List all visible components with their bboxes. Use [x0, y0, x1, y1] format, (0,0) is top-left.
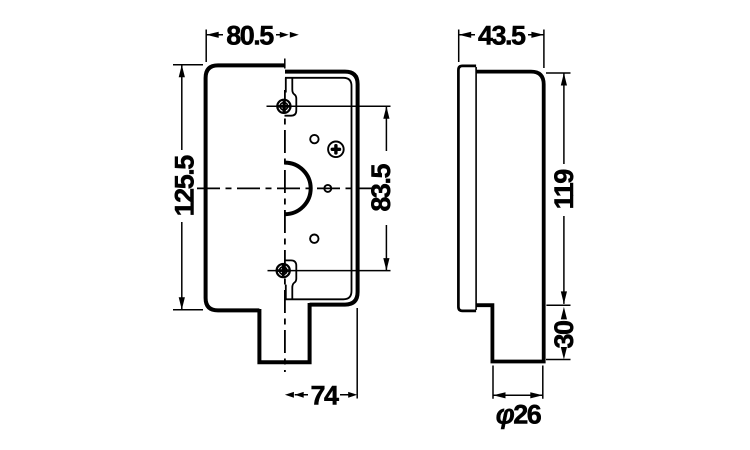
dimension 43.5: dimension line and arrows	[459, 32, 544, 38]
dimension phi26: extension lines	[493, 366, 543, 399]
svg-text:30: 30	[549, 321, 579, 349]
dimension 125.5: dimension line and arrows	[179, 65, 185, 310]
front view: hole center	[324, 185, 331, 192]
dimension 80.5: centerline tick	[284, 59, 286, 69]
front view: bottom mounting screw	[277, 264, 290, 277]
front view: horizontal centerline	[197, 187, 372, 189]
dimension 80.5: extension line left	[205, 30, 207, 63]
dimension 74: extension line right	[356, 308, 358, 399]
svg-text:125.5: 125.5	[169, 155, 199, 217]
dimension phi26: dimension line and arrows	[493, 392, 543, 398]
side view: cover plate right edge	[475, 67, 477, 310]
front view: cover outline	[206, 65, 285, 310]
dimension 83.5: dimension line and arrows	[383, 106, 389, 270]
dimension 74: dimension line and arrows	[285, 392, 357, 398]
front view: hole lower	[310, 235, 318, 243]
dimension 119: dimension line and arrows	[561, 73, 567, 304]
front view: bottom screw boss and slot	[285, 260, 297, 299]
front view: inner opening	[285, 78, 352, 299]
dimension 80.5: dimension line and arrows	[206, 32, 299, 38]
front view: hole upper	[310, 135, 318, 143]
svg-text:43.5: 43.5	[478, 21, 526, 51]
dimension 125.5: extension lines	[173, 65, 203, 310]
dimension 43.5: extension lines	[459, 30, 544, 69]
front view: machine screw on plate	[328, 142, 344, 158]
svg-text:119: 119	[549, 169, 579, 210]
front view: top mounting screw	[277, 100, 290, 113]
svg-text:80.5: 80.5	[226, 21, 274, 51]
front view: knockout semicircle	[285, 163, 311, 215]
svg-text:83.5: 83.5	[366, 164, 396, 212]
dimension 30: extension line bottom	[546, 359, 571, 361]
front view: body outline	[285, 72, 358, 305]
svg-text:74: 74	[310, 381, 339, 411]
dimension 30: arrows	[561, 307, 567, 360]
dimension 83.5: leader lines	[267, 106, 391, 270]
front view: conduit stub	[259, 303, 309, 362]
dimension 119: extension lines	[546, 73, 571, 305]
svg-text:φ26: φ26	[496, 400, 542, 430]
side view: cover plate	[458, 66, 476, 311]
front view: top screw boss and slot	[285, 78, 297, 116]
front view: vertical centerline	[284, 90, 286, 372]
side view: body outline with stub	[476, 72, 544, 362]
